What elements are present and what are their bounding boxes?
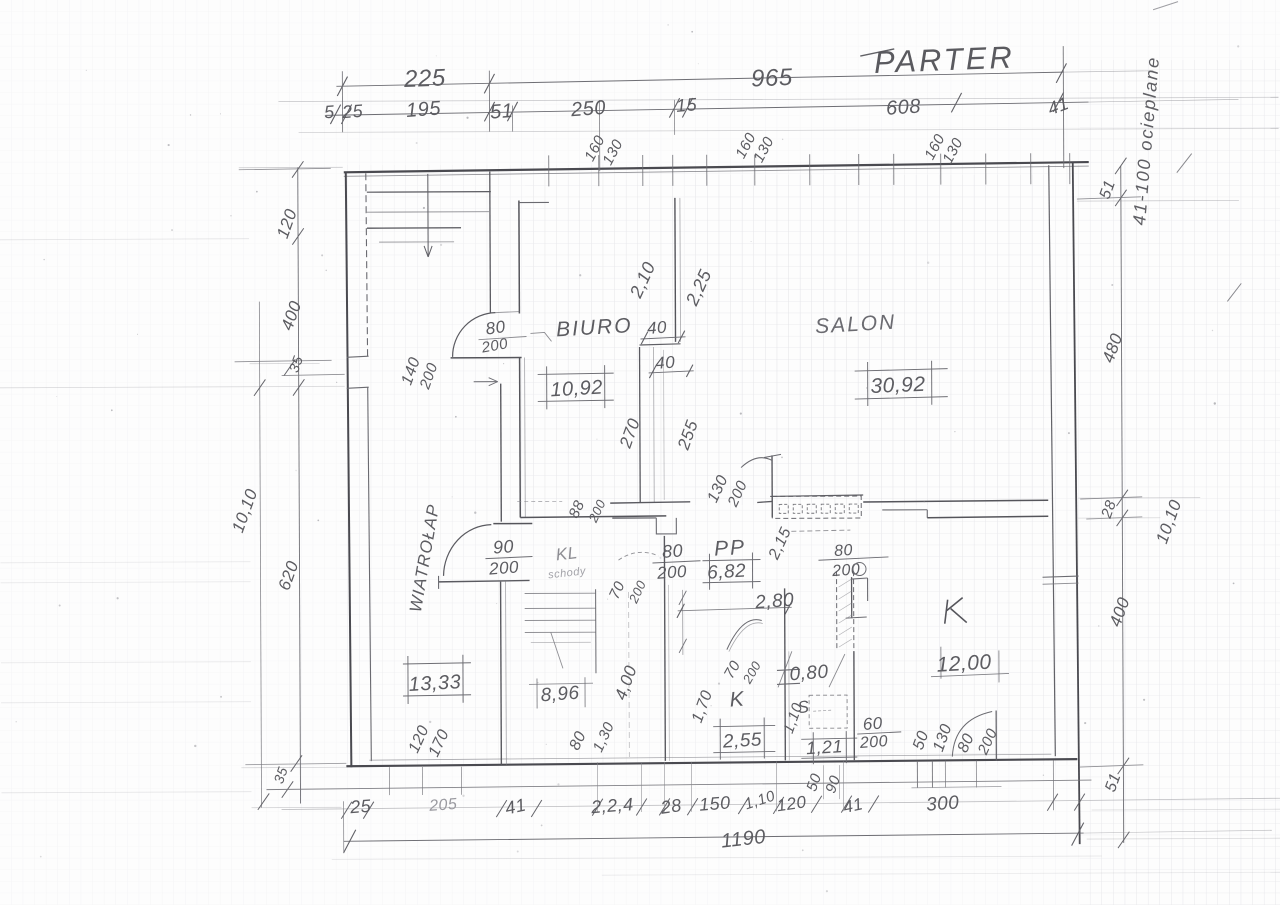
wall exterior top [344, 162, 1089, 172]
left h tick at bottom wall [245, 763, 346, 764]
area box 10,92 [538, 373, 614, 374]
tick [330, 105, 340, 124]
svg-text:205: 205 [428, 796, 458, 815]
tick [1118, 832, 1130, 848]
tick [1056, 63, 1066, 82]
area box 30,92 [855, 369, 948, 371]
svg-text:51: 51 [489, 100, 514, 124]
left h tick line at wall top [239, 168, 331, 169]
tick [592, 799, 603, 816]
wiatrolap window extension ticks [388, 767, 390, 795]
wall biuro left lower (double) [519, 358, 522, 518]
scan speckles [416, 142, 418, 144]
right chain dimension line [1121, 166, 1124, 843]
counter dashed lower line [791, 530, 850, 531]
counter inner dashed squares [779, 504, 788, 513]
left chain dimension line [298, 167, 301, 803]
wall PP right vertical [771, 455, 773, 517]
svg-text:200: 200 [487, 557, 519, 578]
left h tick line 35 lower [282, 374, 345, 375]
svg-text:6,82: 6,82 [707, 561, 747, 584]
tick [1115, 158, 1127, 174]
wall jog 40 [640, 344, 681, 345]
tick [841, 796, 852, 813]
svg-text:PP: PP [713, 536, 746, 561]
svg-text:80: 80 [833, 542, 853, 560]
tick [669, 98, 679, 117]
dim vertical in K small with ticks [682, 590, 684, 655]
svg-text:300: 300 [925, 792, 960, 815]
svg-text:KL: KL [555, 543, 579, 564]
kitchen window sill faint [911, 786, 1001, 787]
bottom chain dimension line lower faint [282, 798, 1280, 809]
wall kitchen left jamb upper (double) [851, 577, 853, 618]
svg-text:200: 200 [858, 733, 888, 752]
basement stair diagonal [551, 632, 563, 668]
basement stair treads [525, 592, 596, 594]
wall wiatrolap right (double) [500, 582, 503, 765]
tick [507, 102, 517, 121]
tick [687, 798, 698, 815]
stray corner marks top right [1153, 2, 1178, 10]
wall nib left of counter [757, 501, 772, 502]
tick [292, 228, 304, 244]
wall interior-face left lower [368, 387, 372, 761]
svg-text:40: 40 [655, 352, 676, 372]
door curl PP top [741, 458, 772, 468]
door arc K small (double) [727, 620, 762, 650]
svg-text:15: 15 [675, 94, 698, 116]
right h tick at y500 [1080, 497, 1142, 499]
wall kitchen left lower [853, 651, 855, 760]
svg-text:40: 40 [646, 318, 667, 338]
bath door sill ticks [777, 669, 800, 670]
wall biuro left upper [518, 201, 520, 314]
wall biuro right upper (double) [674, 198, 677, 342]
tick [1053, 92, 1063, 111]
hall nib with arrow [474, 381, 498, 383]
faint graph-paper horizontal scan lines [278, 97, 1278, 101]
area box 13,33 [403, 663, 471, 664]
wall biuro bottom [520, 516, 666, 518]
svg-text:BIURO: BIURO [555, 314, 633, 341]
wiatrolap top wall [439, 580, 530, 581]
svg-text:30,92: 30,92 [870, 373, 926, 398]
tick [284, 359, 296, 375]
kitchen door arc bottom [952, 711, 992, 756]
door jamb ticks 140/200 on left wall [347, 356, 369, 357]
wall mid horizontal lower with jog [612, 517, 656, 519]
kitchen counter dashed outline [772, 496, 861, 518]
wall exterior left [346, 172, 352, 767]
tick [531, 800, 542, 817]
window jamb ticks on top wall [548, 155, 550, 186]
area box 2,55 [713, 725, 775, 726]
room label K big [945, 598, 967, 624]
salon bottom wall step [882, 509, 927, 511]
tick [811, 796, 822, 813]
tick [1047, 794, 1058, 811]
svg-text:150: 150 [698, 792, 731, 814]
door header 90/200 stub [493, 522, 532, 524]
wall interior-face left upper [366, 173, 368, 356]
svg-text:195: 195 [405, 97, 442, 122]
svg-text:965: 965 [751, 64, 794, 93]
window right wall (salon/kitchen) [1043, 576, 1079, 577]
dimension row B line (5 25 195 51 250 15 608 41) [325, 102, 1088, 115]
staircase right wall [489, 172, 492, 313]
tick [484, 102, 494, 121]
tick [1116, 490, 1128, 506]
wall interior-face right [1049, 165, 1056, 756]
tick [341, 105, 351, 124]
swing arrow to biuro [530, 332, 551, 341]
tick [636, 798, 647, 815]
bottom chain dimension line upper [266, 780, 1091, 790]
tick [659, 798, 670, 815]
extension verticals above wall [341, 71, 343, 132]
door leaf biuro [451, 357, 522, 359]
salon bottom wall right of counter [863, 500, 1048, 502]
svg-text:10,92: 10,92 [550, 376, 604, 401]
left outer dimension line 10,10 [259, 302, 261, 808]
svg-text:25: 25 [340, 101, 364, 123]
tick [292, 161, 304, 177]
tick [363, 802, 374, 819]
tick [1074, 794, 1085, 811]
tick [1117, 510, 1129, 526]
door dashed swing hall [618, 552, 658, 560]
tick [773, 797, 784, 814]
overall bottom dimension line 1190 [344, 833, 1084, 841]
svg-text:2,2,4: 2,2,4 [589, 794, 634, 817]
svg-text:200: 200 [655, 562, 687, 583]
svg-text:PARTER: PARTER [873, 39, 1015, 80]
svg-text:25: 25 [348, 796, 372, 818]
area box 6,82 [702, 559, 760, 560]
svg-text:SALON: SALON [814, 311, 896, 339]
wall K-small left vertical [663, 536, 666, 761]
svg-text:90: 90 [492, 536, 514, 558]
svg-text:S: S [797, 697, 811, 717]
tick [682, 98, 692, 117]
tick [1115, 190, 1127, 206]
tick [282, 781, 294, 797]
tick [484, 74, 494, 93]
kitchen door bottom jamb [995, 710, 997, 760]
wall exterior bottom [346, 759, 1077, 766]
right h tick at y768 [1079, 765, 1143, 767]
bottom extension verticals [596, 762, 598, 812]
dimension row A line (225 / 965) [336, 72, 1063, 86]
tick [293, 379, 305, 395]
tick [337, 77, 347, 96]
wall exterior right [1073, 162, 1080, 844]
svg-text:8,96: 8,96 [540, 683, 580, 707]
dim vertical 4,00 dashed [628, 592, 631, 757]
dashed dim extension biuro bottom [517, 500, 562, 502]
tick [1118, 758, 1130, 774]
wall biuro right lower (double) [639, 347, 642, 503]
kitchen window bottom ticks [916, 761, 918, 788]
svg-text:250: 250 [569, 97, 606, 122]
tick [496, 800, 507, 817]
area box 1,21 [801, 738, 857, 739]
svg-text:60: 60 [862, 714, 883, 734]
right h tick at y520 [1086, 517, 1142, 519]
svg-text:5: 5 [323, 102, 335, 123]
wall hall left vertical [500, 384, 503, 522]
dim extension line between 270/255 [663, 350, 666, 500]
tick [291, 755, 303, 771]
svg-text:K: K [729, 688, 746, 712]
tick [254, 379, 266, 395]
tick [951, 93, 961, 112]
wall bath left vertical [784, 588, 787, 760]
svg-text:0,80: 0,80 [789, 662, 829, 686]
door arc biuro 80/200 [452, 313, 495, 357]
basement stair right wall [595, 589, 597, 673]
svg-text:1,21: 1,21 [805, 736, 843, 758]
door arc 90/200 wiatrolap [443, 525, 491, 576]
tick [868, 795, 879, 812]
svg-text:2,80: 2,80 [754, 590, 795, 614]
svg-text:225: 225 [403, 64, 447, 93]
staircase treads [367, 191, 491, 194]
svg-text:200: 200 [831, 561, 861, 580]
svg-text:2,55: 2,55 [721, 729, 762, 752]
tick [258, 793, 270, 809]
svg-text:28: 28 [658, 795, 683, 818]
left h tick line 35 upper [235, 360, 332, 361]
staircase center line with down arrow [427, 174, 429, 257]
svg-text:608: 608 [885, 95, 921, 120]
svg-text:13,33: 13,33 [408, 671, 462, 696]
chimney dashed shaft [836, 571, 838, 651]
wall mid horizontal upper [610, 502, 690, 503]
right h tick at y200 [1077, 197, 1141, 199]
tick [341, 802, 352, 819]
tick [738, 797, 749, 814]
svg-text:12,00: 12,00 [936, 651, 992, 677]
